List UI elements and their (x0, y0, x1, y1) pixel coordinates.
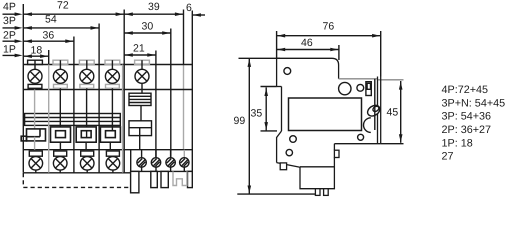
dimension 72 (23, 0, 124, 16)
block bottom-left vertical (130, 150, 132, 193)
svg-text:2P: 36+27: 2P: 36+27 (442, 124, 492, 136)
leader 3P (3, 26, 23, 30)
handle pole 1 (stepped) (21, 129, 45, 141)
extension line x=99.1 (98, 24, 100, 90)
dimension 30 (124, 21, 171, 35)
hatched terminal 1 (137, 150, 146, 172)
svg-text:4P:72+45: 4P:72+45 (442, 84, 489, 96)
bottom terminal pole 3 (80, 151, 94, 173)
35 bottom reference (261, 130, 278, 132)
left edge step (277, 86, 282, 88)
dashed mounting box (23, 173, 130, 187)
top terminal pole 3 (79, 60, 94, 89)
foot 1 (315, 189, 320, 196)
left edge upper (276, 58, 278, 86)
terminal row separator (23, 89, 192, 91)
svg-text:39: 39 (148, 1, 160, 13)
hatched terminal 2 (151, 150, 160, 172)
wire between rects (140, 106, 142, 121)
circle bottom-left 2 (286, 149, 292, 155)
extension 76 right (380, 31, 382, 77)
dimension 36 (23, 30, 74, 44)
dimension 54 (23, 14, 99, 30)
block striped rect 1 (129, 93, 151, 105)
handle tie bar (25, 114, 121, 126)
small circle front (357, 84, 364, 91)
svg-text:1P: 18: 1P: 18 (442, 137, 473, 149)
handle pole 2 (51, 127, 71, 142)
grey pole separator 1-2 (48, 65, 50, 173)
wires poles 2-4 between terminal row and tie bar (60, 90, 112, 127)
bottom terminal pole 4 (106, 151, 120, 173)
label rectangle (289, 98, 362, 131)
slider clamp top right (366, 82, 371, 96)
leader 1P (3, 54, 23, 58)
svg-text:35: 35 (251, 108, 263, 120)
latch square right of block (334, 150, 339, 157)
back edge double (377, 77, 379, 144)
extension line x=124.2 / block boundary (123, 10, 125, 173)
toggle lever (363, 103, 381, 132)
top terminal pole 1 (28, 60, 43, 89)
extension line x=73.9 (73, 37, 75, 90)
svg-text:21: 21 (133, 43, 145, 55)
svg-text:6: 6 (186, 2, 192, 14)
block right edge upper (333, 144, 335, 151)
svg-text:76: 76 (323, 21, 335, 33)
extension line x=170.8 (170, 29, 172, 158)
bottom block (300, 158, 334, 189)
bottom line of front area (334, 143, 380, 145)
grey separator pole4/block (122, 65, 124, 173)
bottom terminal pole 2 (53, 151, 67, 173)
foot 2 (324, 189, 329, 196)
wire pole4 above inner handle (111, 127, 113, 131)
label 2P (3, 30, 16, 42)
wire below rect2 (139, 136, 141, 150)
bottom block top line (300, 166, 334, 168)
99 top reference line (239, 57, 281, 59)
top surface (277, 58, 339, 79)
comb grey tooth (173, 171, 187, 185)
handle pole 3 (76, 127, 96, 142)
pole separator 2-3 (73, 90, 75, 173)
screw hole top-left (284, 68, 291, 75)
extension line x=23.3 / breaker left edge (22, 4, 24, 173)
wire pole3 through inner handle (86, 131, 88, 138)
dimension 46 (277, 37, 339, 51)
label 4P (3, 1, 16, 13)
front face boundary line (374, 79, 376, 130)
side body outline (277, 58, 381, 195)
dimension 99 (234, 58, 252, 194)
svg-text:46: 46 (301, 37, 313, 49)
svg-text:72: 72 (57, 0, 69, 12)
extension 46 right (338, 45, 340, 60)
extension line x=48.7 (48, 50, 50, 65)
top edge (23, 64, 192, 66)
wires poles 2-4 below handles (59, 142, 61, 150)
spec text (442, 84, 506, 163)
bottom terminal row top line (23, 149, 192, 151)
left edge mid (281, 87, 283, 132)
svg-text:4P: 4P (3, 1, 16, 13)
leader 4P (3, 12, 23, 16)
svg-text:1P: 1P (3, 44, 16, 56)
circle bottom-left 1 (290, 136, 297, 143)
45 top reference (378, 79, 404, 81)
99 bottom reference line (237, 193, 315, 195)
label 3P (3, 15, 16, 27)
leader 2P (3, 39, 23, 43)
wire pole1 grey below handle (34, 137, 36, 150)
bottom terminal pole 1 (29, 151, 43, 173)
block rect 2 (test button) (129, 121, 152, 136)
dimension 6 (186, 2, 205, 17)
top terminal pole 4 (105, 60, 120, 89)
clip zigzag (277, 131, 282, 163)
svg-text:2P: 2P (3, 30, 16, 42)
breaker right edge x=192.3 (191, 11, 193, 172)
35 top reference (261, 86, 277, 88)
dimension 45 (387, 81, 403, 143)
extension line x=155.9 (155, 51, 157, 158)
svg-text:3P: 3P (3, 15, 16, 27)
handle pole 4 (100, 127, 120, 142)
top terminal block (5th) (135, 60, 150, 93)
comb bottom profile (130, 171, 192, 192)
svg-text:3P+N: 54+45: 3P+N: 54+45 (442, 97, 506, 109)
svg-text:3P: 54+36: 3P: 54+36 (442, 111, 492, 123)
wire pole 1 (grey) between terminal row and tie bar (34, 90, 36, 129)
svg-text:54: 54 (45, 14, 57, 26)
svg-text:36: 36 (43, 30, 55, 42)
45 bottom reference (381, 143, 404, 145)
dimension 18 (23, 45, 48, 59)
svg-text:99: 99 (234, 115, 246, 127)
front face top line (339, 78, 378, 80)
bottom diagonal (277, 163, 300, 168)
big circle front (339, 82, 351, 94)
dimension 21 (124, 43, 156, 57)
extension 76/46 left (top of body edge) (276, 31, 278, 58)
extension line x=183.5 (183, 10, 185, 65)
dimension 35 (251, 87, 269, 130)
circle bottom-right (358, 134, 364, 140)
svg-text:30: 30 (142, 21, 154, 33)
dimension 39 (124, 1, 183, 16)
bottom edge 4P section (23, 172, 130, 174)
top terminal pole 2 (53, 60, 68, 89)
svg-text:45: 45 (387, 107, 399, 119)
small tab bottom-left (280, 163, 286, 170)
label 1P (3, 44, 16, 56)
dimension 76 (277, 21, 381, 38)
svg-text:27: 27 (442, 151, 454, 163)
hatched terminal 4 (180, 150, 189, 172)
hatched terminal 3 (166, 150, 175, 172)
pole separator 3-4 (98, 90, 100, 173)
